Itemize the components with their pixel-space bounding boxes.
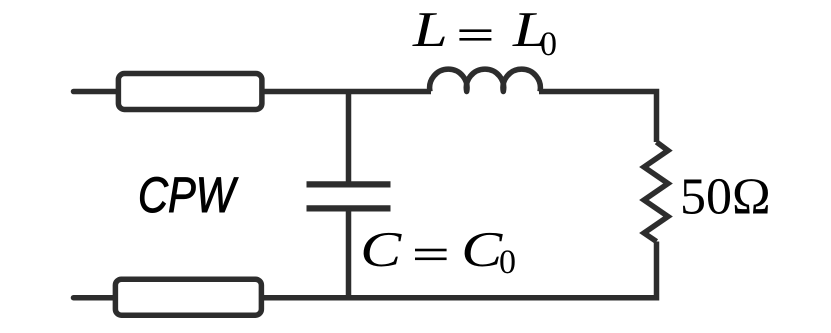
wire top-right with corner <box>539 92 657 143</box>
wire capacitor to bottom <box>346 208 352 297</box>
wire bottom-left stub <box>74 295 114 301</box>
node junction top (capacitor tap) <box>346 92 352 185</box>
CPW transmission line box (bottom) <box>115 279 261 315</box>
wire right-bottom with corner <box>262 242 657 298</box>
label C of C=C0 <box>364 233 402 267</box>
inductor L1 <box>430 69 541 91</box>
wire top (box to inductor) <box>262 89 431 95</box>
label subscript 0 of L0 <box>541 32 555 55</box>
capacitor C1 top plate <box>307 181 391 187</box>
label CPW <box>140 177 238 212</box>
capacitor C1 bottom plate <box>307 205 391 211</box>
resistor R1 zigzag <box>644 142 668 242</box>
CPW transmission line box (top) <box>118 74 262 110</box>
wire top-left stub <box>74 89 117 95</box>
label C0 of C=C0 <box>465 233 503 267</box>
label L of L=L0 <box>412 13 445 46</box>
label 50 Ohm value <box>683 179 768 214</box>
label L0 of L=L0 <box>512 13 545 46</box>
label subscript 0 of C0 <box>500 250 514 273</box>
label equals sign of L=L0 <box>459 29 491 40</box>
label equals sign of C=C0 <box>415 249 447 260</box>
